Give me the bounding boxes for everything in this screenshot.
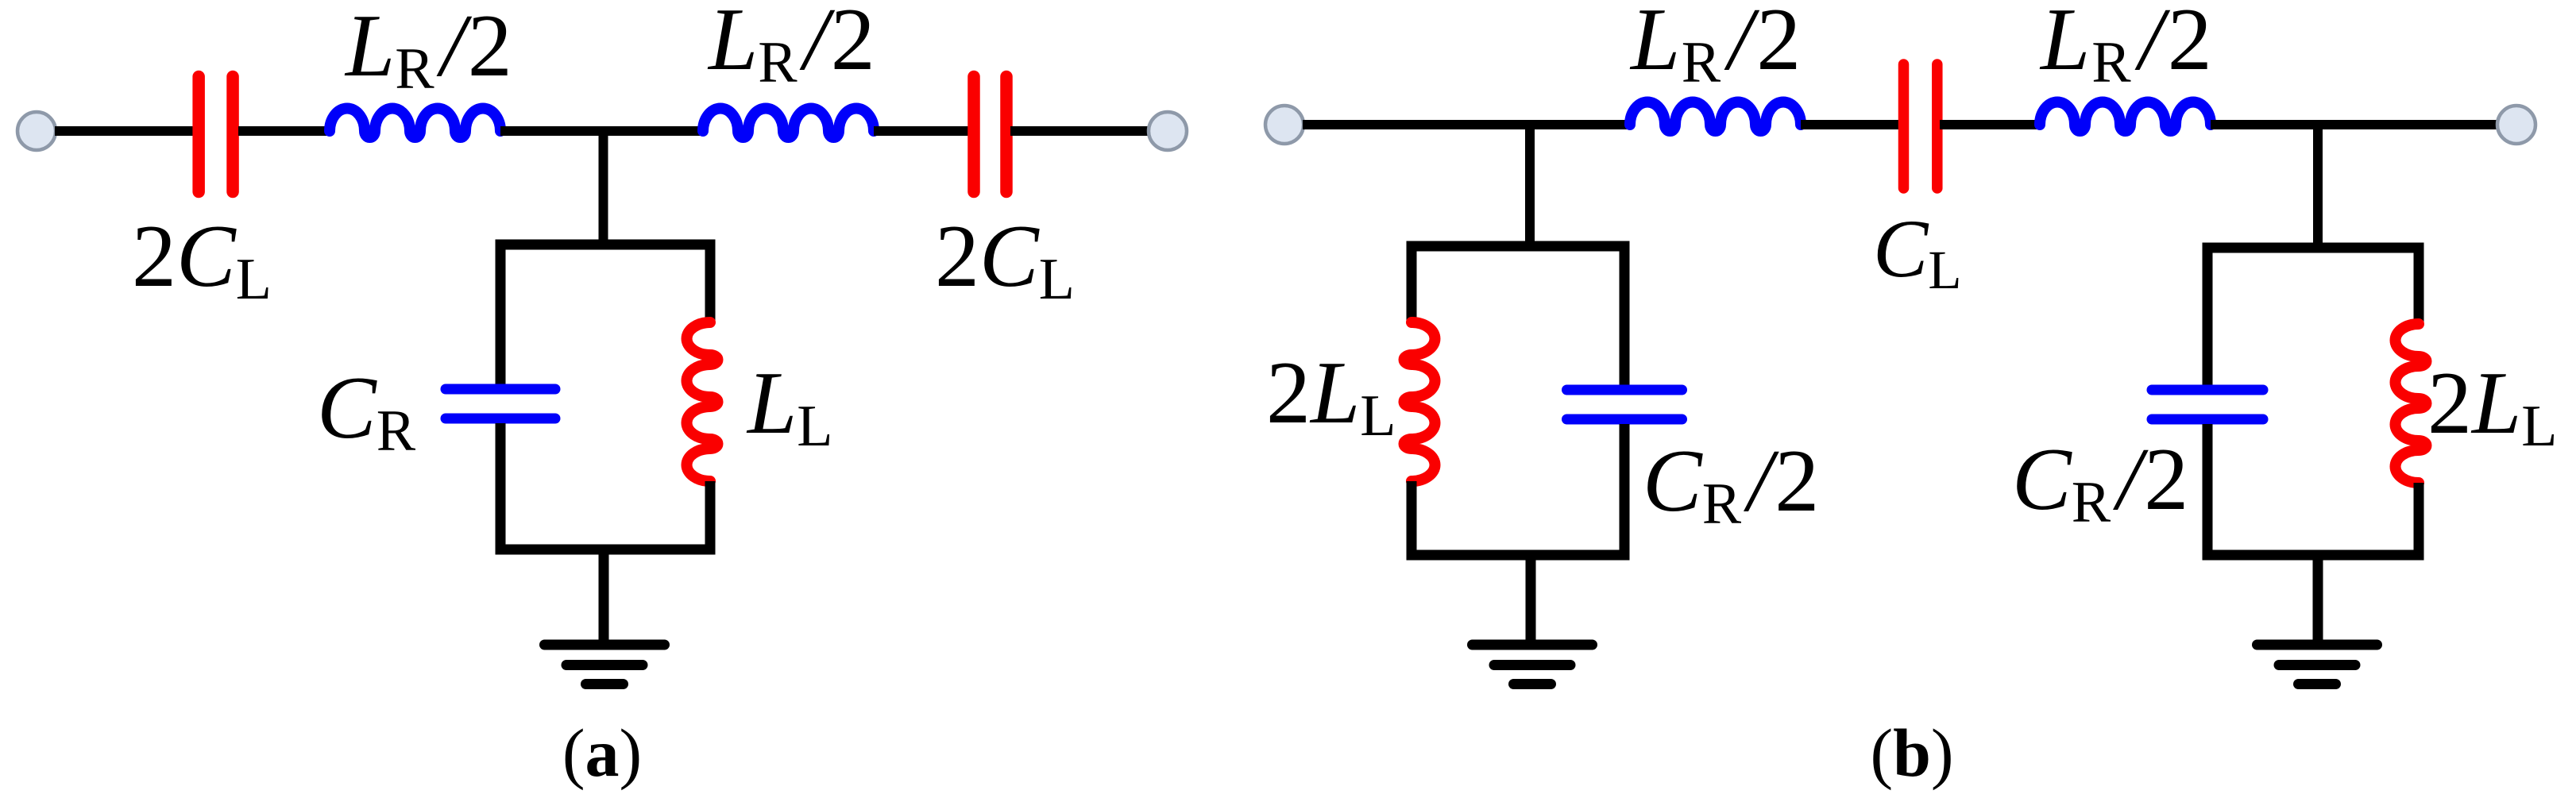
wire: (a) between inductors through node	[500, 126, 703, 136]
wire: (a) cap to output port	[1010, 126, 1150, 136]
wire: (b) left junction vertical	[1525, 120, 1535, 251]
wire: (b) left tank bottom bar	[1407, 550, 1630, 561]
wire: (b) left tank left edge lower	[1407, 481, 1417, 560]
wire: (b) inductor to output port	[2211, 120, 2499, 129]
wire: (a) tank right edge lower	[705, 481, 716, 554]
wire: (a) tank left edge upper	[496, 240, 506, 384]
wire: (b) right tank left edge lower	[2203, 424, 2213, 560]
wire: (b) right tank bottom bar	[2203, 550, 2424, 561]
terminal: circuit (b) output port	[2497, 106, 2535, 144]
wire: (b) right tank right edge lower	[2414, 483, 2424, 560]
wire: (b) cap to right inductor	[1940, 120, 2042, 129]
ground (b left)	[1473, 645, 1593, 684]
inductor 2LL (b right shunt, red coil)	[2396, 324, 2427, 483]
wire: (a) input to 2CL cap	[55, 126, 195, 136]
wire: (b) right tank right edge upper	[2414, 243, 2424, 326]
inductor LR/2 (a, right series)	[703, 109, 874, 138]
inductor LL (a shunt, red coil)	[687, 322, 718, 481]
inductor LR/2 (a, left series)	[330, 109, 500, 138]
capacitor CR/2 (b right shunt)	[2152, 390, 2263, 419]
capacitor CL (b, middle series)	[1904, 64, 1937, 188]
wire: (a) tank right edge upper	[705, 240, 716, 324]
svg-text:(a): (a)	[562, 715, 642, 791]
svg-text:(b): (b)	[1870, 715, 1953, 791]
wire: (b) left tank right edge upper	[1620, 241, 1630, 385]
capacitor 2CL (a, left series)	[199, 77, 233, 192]
wire: (b) left tank top bar	[1407, 241, 1630, 252]
wire: (b) right ground stem	[2313, 555, 2323, 645]
wire: (a) tank top bar	[496, 240, 716, 250]
wire: (b) right tank left edge upper	[2203, 243, 2213, 385]
capacitor 2CL (a, right series)	[974, 77, 1006, 192]
ground (a)	[545, 645, 665, 684]
wire: (a) junction vertical to shunt tank	[599, 126, 608, 249]
wire: (a) tank left edge lower	[496, 423, 506, 554]
wire: (b) left ground stem	[1526, 555, 1536, 645]
terminal: circuit (b) input port	[1265, 106, 1303, 144]
capacitor CR (a shunt)	[446, 389, 555, 418]
wire: (a) tank bottom bar	[496, 545, 716, 555]
inductor LR/2 (b, right series)	[2040, 102, 2211, 132]
wire: (b) left tank right edge lower	[1620, 424, 1630, 560]
wire: (b) inductor to CL cap	[1801, 120, 1902, 129]
wire: (b) input to left node	[1303, 120, 1632, 129]
wire: (a) inductor to 2CL cap	[874, 126, 971, 136]
wire: (b) right tank top bar	[2203, 243, 2424, 253]
terminal: circuit (a) input port	[17, 112, 56, 150]
wire: (b) right junction vertical	[2313, 120, 2323, 253]
wire: (a) cap to LR/2 inductor	[238, 126, 332, 136]
wire: (b) left tank left edge upper	[1407, 241, 1417, 324]
inductor 2LL (b left shunt, red coil)	[1404, 322, 1435, 481]
capacitor CR/2 (b left shunt)	[1567, 390, 1682, 419]
wire: (a) ground stem	[599, 549, 609, 645]
inductor LR/2 (b, left series)	[1630, 102, 1801, 132]
ground (b right)	[2257, 645, 2377, 684]
terminal: circuit (a) output port	[1149, 112, 1187, 150]
